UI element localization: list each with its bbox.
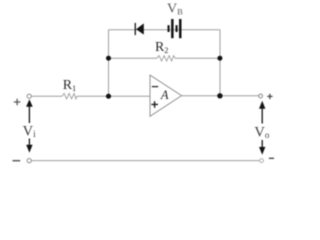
wire input from Vi+ terminal to R1 — [31, 95, 62, 97]
op-amp A triangle — [150, 75, 182, 116]
terminal circle Vi plus — [27, 94, 31, 98]
battery VB plate short 2 — [176, 25, 178, 32]
Vi up arrow head — [26, 99, 33, 107]
Vo up arrow shaft — [261, 108, 263, 124]
Vi down arrow shaft — [28, 139, 30, 147]
wire R1 to op-amp input — [77, 95, 150, 97]
resistor R2 zigzag — [157, 56, 175, 61]
op-amp non-inverting input plus sign — [151, 101, 158, 108]
node dot at R2/top-loop right junction — [217, 56, 222, 61]
Vo up arrow head — [259, 101, 265, 109]
wire left vertical of feedback loop — [108, 30, 110, 96]
wire op-amp output to Vo+ terminal — [182, 95, 259, 97]
Vi up arrow shaft — [28, 107, 30, 124]
Vo down arrow head — [259, 147, 265, 155]
resistor R1 zigzag — [62, 93, 77, 99]
input plus polarity sign — [14, 99, 21, 105]
Vo down arrow shaft — [261, 140, 263, 148]
terminal circle Vo plus — [259, 94, 263, 98]
wire R2 branch right segment — [175, 57, 220, 59]
wire bottom return — [31, 160, 259, 162]
op-amp inverting input minus sign — [152, 86, 158, 88]
diode D1 cathode bar — [135, 23, 136, 35]
svg-text:A: A — [160, 88, 169, 102]
terminal circle Vi minus — [27, 159, 31, 163]
node dot at output junction — [217, 93, 222, 98]
node dot at R2/top-loop left junction — [106, 56, 111, 61]
input minus polarity sign — [13, 160, 21, 162]
wire top feedback branch (diode + battery) — [109, 29, 221, 31]
node dot at left input junction — [106, 94, 111, 99]
wire R2 branch left segment — [109, 57, 158, 59]
diode D1 triangle — [136, 23, 144, 34]
output plus polarity sign — [267, 94, 272, 99]
output minus polarity sign — [269, 157, 274, 159]
wire right vertical of feedback loop — [219, 30, 221, 96]
battery VB plate tall 1 — [171, 19, 174, 38]
battery VB plate tall 2 — [179, 19, 182, 38]
battery VB plate short 1 — [168, 25, 170, 32]
Vi down arrow head — [26, 145, 32, 153]
terminal circle Vo minus — [260, 159, 264, 163]
